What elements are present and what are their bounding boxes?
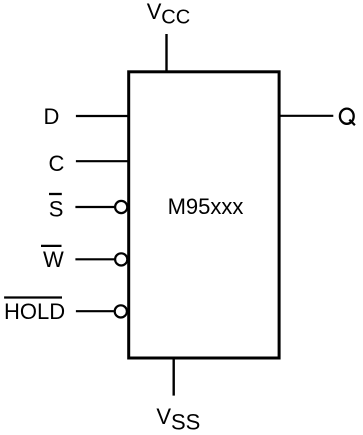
svg-text:HOLD: HOLD (4, 299, 65, 324)
svg-text:V: V (156, 404, 171, 429)
svg-text:D: D (44, 104, 60, 129)
wire pin W (75, 258, 114, 260)
wire pin Q (280, 115, 334, 117)
wire pin C (76, 160, 128, 162)
inversion bubble S (115, 201, 127, 213)
svg-text:CC: CC (161, 6, 190, 28)
VSS ground wire (172, 359, 174, 396)
inversion bubble W (115, 253, 127, 265)
label Q (340, 109, 354, 124)
wire pin D (76, 115, 128, 117)
svg-text:M95xxx: M95xxx (168, 194, 244, 219)
IC body U1 M95xxx (129, 72, 279, 358)
svg-text:W: W (43, 247, 64, 272)
inversion bubble HOLD (115, 305, 127, 317)
svg-text:C: C (49, 151, 65, 176)
svg-text:V: V (147, 0, 162, 24)
VCC supply wire (165, 34, 167, 71)
wire pin S (75, 206, 114, 208)
wire pin HOLD (76, 310, 114, 312)
svg-text:S: S (49, 196, 64, 221)
svg-text:SS: SS (171, 409, 200, 434)
